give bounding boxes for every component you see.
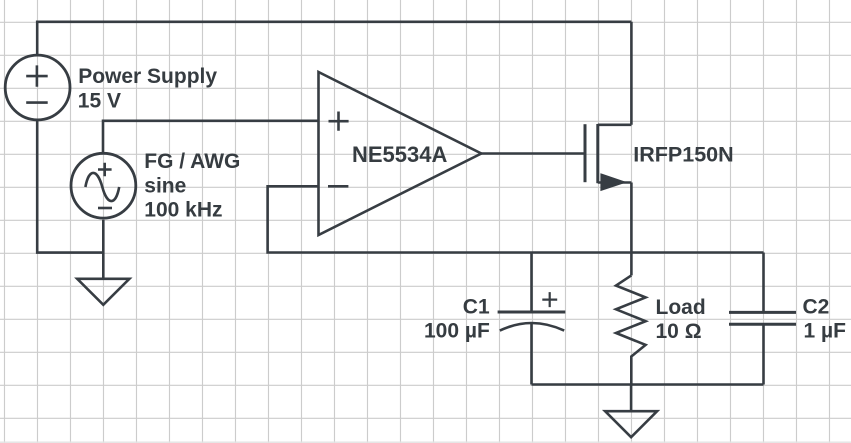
ground symbol bottom xyxy=(605,411,657,437)
wire load to ground xyxy=(630,385,633,412)
wire FG bottom to ground xyxy=(102,220,105,279)
label IRFP150N xyxy=(633,143,733,167)
ground symbol left xyxy=(77,279,129,305)
power supply V1 xyxy=(5,55,70,120)
wire FG top to opamp noninverting input xyxy=(103,121,319,154)
svg-text:100 kHz: 100 kHz xyxy=(144,198,222,221)
svg-text:C2: C2 xyxy=(803,296,830,319)
svg-text:Power Supply: Power Supply xyxy=(78,65,217,88)
transistor Q1 IRFP150N xyxy=(585,124,631,189)
label C1 100 uF xyxy=(424,296,490,343)
svg-text:C1: C1 xyxy=(463,296,490,319)
wire feedback from output node to inverting input xyxy=(268,186,764,252)
wire source to output node xyxy=(630,183,633,276)
label Power Supply 15 V xyxy=(78,65,218,112)
svg-text:Load: Load xyxy=(656,296,706,319)
capacitor C2 xyxy=(729,253,796,385)
label C2 1 uF xyxy=(803,296,847,343)
signal source FG/AWG xyxy=(71,153,136,218)
svg-text:1 µF: 1 µF xyxy=(804,320,847,343)
capacitor C1 xyxy=(498,253,566,385)
svg-text:10 Ω: 10 Ω xyxy=(656,320,702,343)
label Load 10 ohm xyxy=(656,296,706,343)
svg-text:NE5534A: NE5534A xyxy=(352,142,448,167)
resistor Load 10 ohm xyxy=(616,275,646,384)
wire opamp output to gate xyxy=(481,152,585,155)
wire bottom rail xyxy=(532,383,764,386)
svg-text:15 V: 15 V xyxy=(78,89,121,112)
svg-text:100 µF: 100 µF xyxy=(424,320,490,343)
wire drain to top rail xyxy=(630,22,633,125)
op-amp U1 NE5534A xyxy=(319,72,482,235)
svg-text:FG / AWG: FG / AWG xyxy=(144,150,240,173)
svg-text:sine: sine xyxy=(144,174,186,197)
svg-text:IRFP150N: IRFP150N xyxy=(633,143,733,167)
wire top rail xyxy=(37,22,631,55)
label NE5534A xyxy=(352,142,448,167)
wire power supply negative to ground rail xyxy=(37,120,103,253)
label FG / AWG sine 100 kHz xyxy=(144,150,240,221)
